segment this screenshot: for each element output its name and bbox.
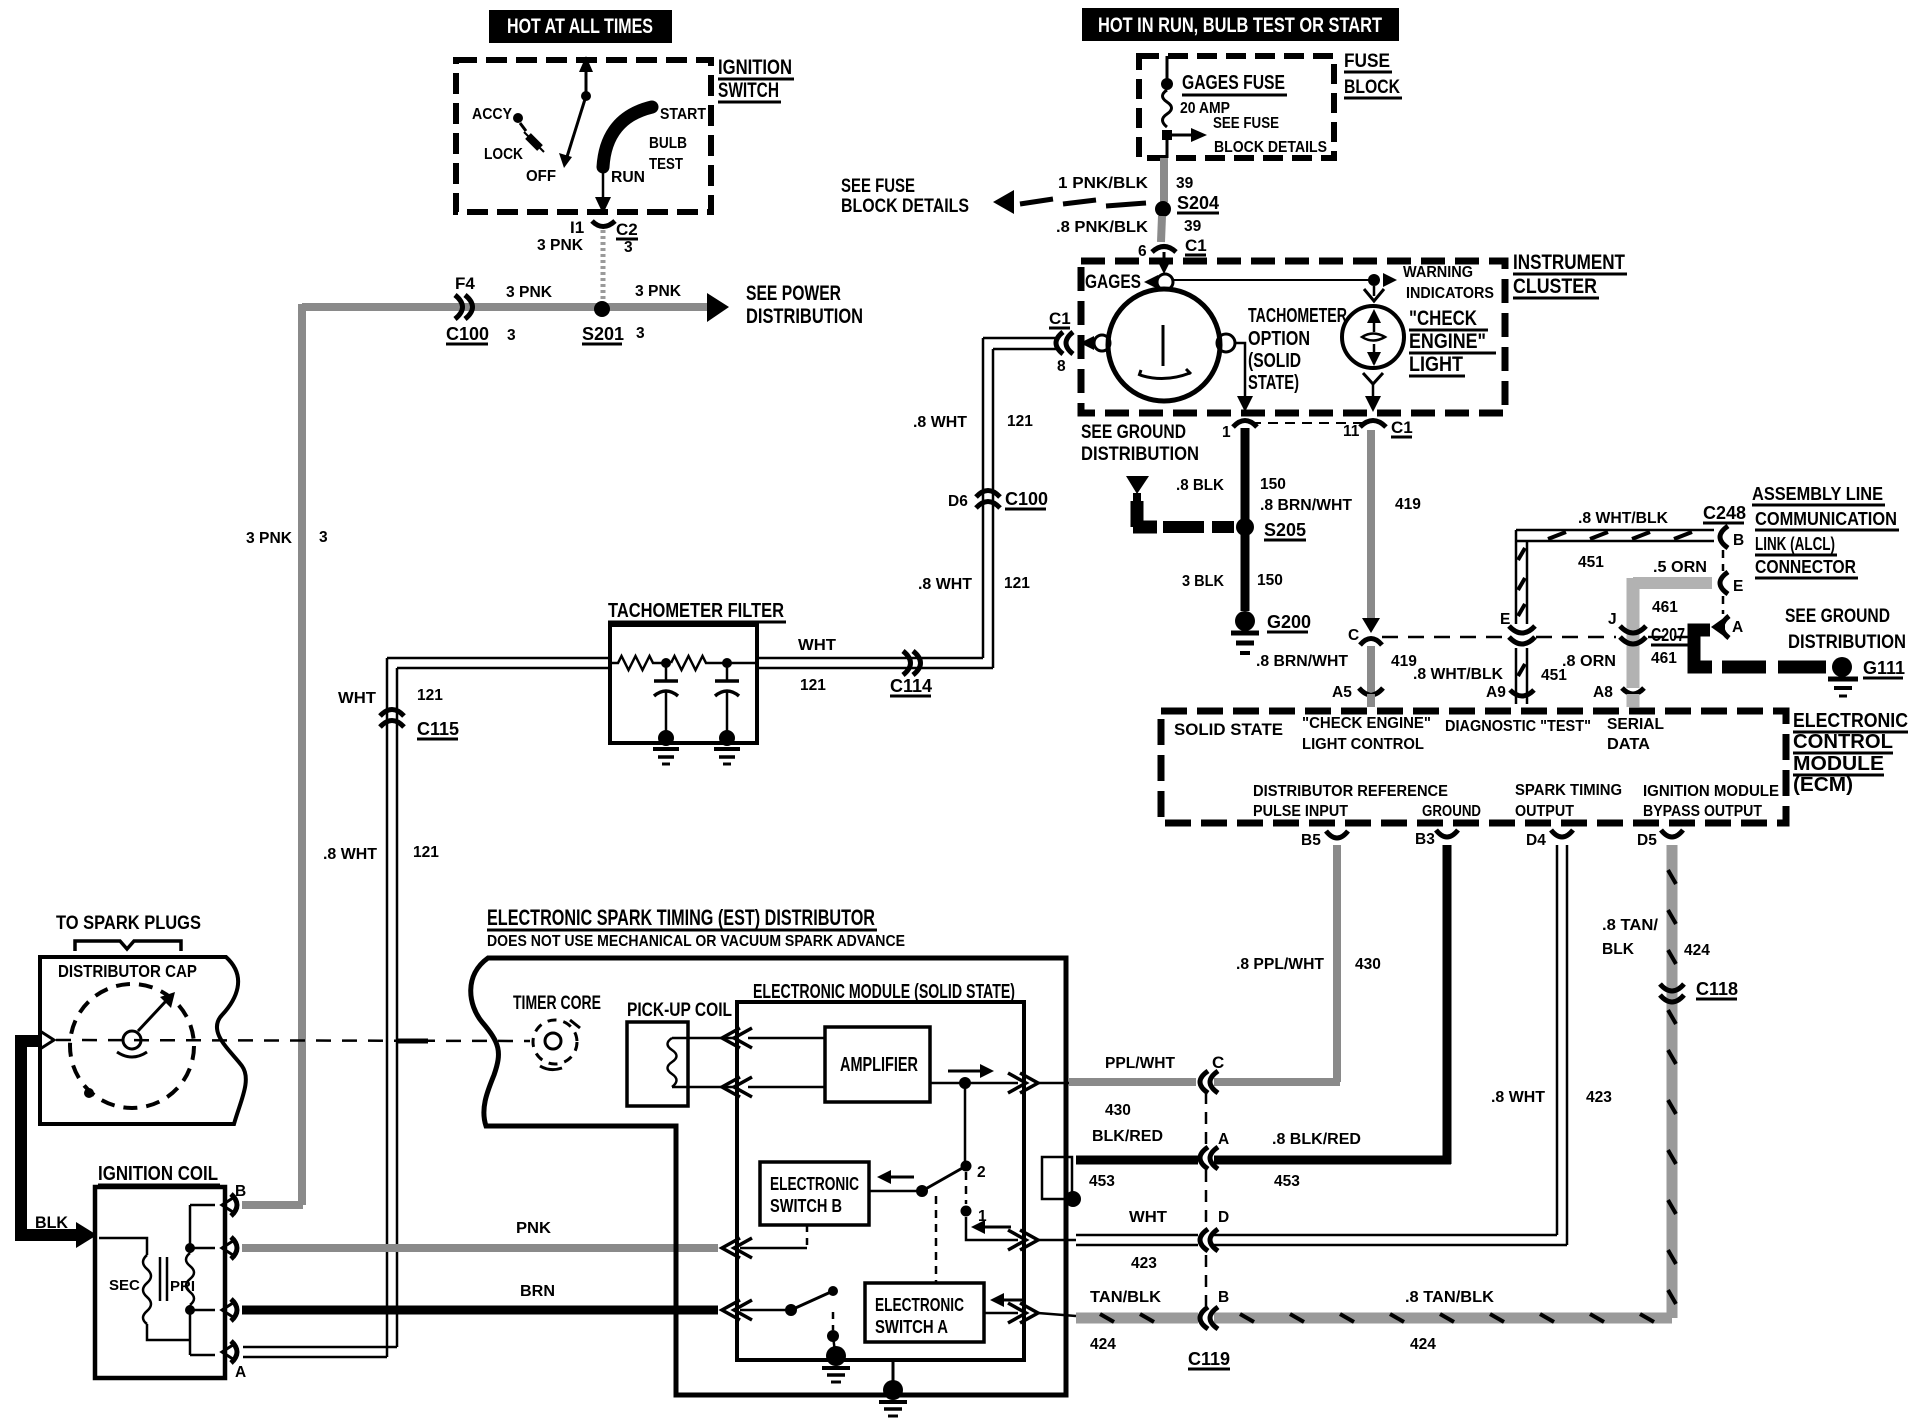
svg-text:AMPLIFIER: AMPLIFIER bbox=[840, 1054, 918, 1076]
svg-text:453: 453 bbox=[1089, 1173, 1115, 1190]
svg-text:SWITCH: SWITCH bbox=[718, 79, 779, 102]
svg-text:C: C bbox=[1212, 1053, 1224, 1072]
svg-text:C: C bbox=[1348, 627, 1359, 644]
svg-text:RUN: RUN bbox=[611, 169, 645, 186]
svg-text:OFF: OFF bbox=[526, 168, 556, 185]
svg-text:SERIAL: SERIAL bbox=[1607, 716, 1664, 733]
svg-text:COMMUNICATION: COMMUNICATION bbox=[1755, 509, 1897, 529]
svg-text:C1: C1 bbox=[1391, 418, 1413, 437]
svg-text:BLK: BLK bbox=[1602, 941, 1635, 958]
svg-text:B3: B3 bbox=[1415, 831, 1435, 848]
svg-text:DIAGNOSTIC "TEST": DIAGNOSTIC "TEST" bbox=[1445, 718, 1591, 735]
svg-text:C207: C207 bbox=[1651, 625, 1685, 645]
svg-text:A: A bbox=[235, 1364, 246, 1381]
svg-text:DISTRIBUTOR CAP: DISTRIBUTOR CAP bbox=[58, 961, 197, 981]
svg-text:.8 WHT: .8 WHT bbox=[323, 846, 378, 863]
svg-text:WHT: WHT bbox=[1129, 1209, 1168, 1226]
svg-text:430: 430 bbox=[1105, 1102, 1131, 1119]
svg-text:424: 424 bbox=[1090, 1336, 1116, 1353]
svg-text:PULSE INPUT: PULSE INPUT bbox=[1253, 803, 1348, 820]
svg-text:6: 6 bbox=[1138, 243, 1147, 260]
svg-text:C118: C118 bbox=[1696, 979, 1738, 999]
svg-text:DISTRIBUTOR REFERENCE: DISTRIBUTOR REFERENCE bbox=[1253, 783, 1448, 800]
svg-text:BYPASS OUTPUT: BYPASS OUTPUT bbox=[1643, 803, 1762, 820]
svg-text:SPARK TIMING: SPARK TIMING bbox=[1515, 782, 1622, 799]
svg-text:B: B bbox=[1733, 532, 1744, 549]
svg-text:3: 3 bbox=[636, 325, 645, 342]
svg-text:ELECTRONIC: ELECTRONIC bbox=[770, 1174, 859, 1194]
svg-text:D6: D6 bbox=[948, 493, 968, 510]
svg-text:B: B bbox=[235, 1183, 246, 1200]
svg-text:WHT: WHT bbox=[338, 690, 377, 707]
svg-text:SEE GROUND: SEE GROUND bbox=[1081, 422, 1186, 443]
svg-text:CONNECTOR: CONNECTOR bbox=[1755, 557, 1856, 577]
svg-text:ELECTRONIC MODULE (SOLID STATE: ELECTRONIC MODULE (SOLID STATE) bbox=[753, 981, 1015, 1003]
svg-text:430: 430 bbox=[1355, 956, 1381, 973]
svg-text:D5: D5 bbox=[1637, 832, 1657, 849]
svg-text:FUSE: FUSE bbox=[1344, 51, 1390, 72]
svg-text:D4: D4 bbox=[1526, 832, 1546, 849]
svg-text:.8 WHT/BLK: .8 WHT/BLK bbox=[1578, 510, 1669, 527]
svg-text:PPL/WHT: PPL/WHT bbox=[1105, 1055, 1176, 1072]
svg-text:GROUND: GROUND bbox=[1422, 803, 1481, 820]
svg-text:3: 3 bbox=[319, 529, 328, 546]
svg-text:ENGINE": ENGINE" bbox=[1409, 330, 1486, 353]
svg-text:OPTION: OPTION bbox=[1248, 328, 1310, 350]
svg-text:DISTRIBUTION: DISTRIBUTION bbox=[1081, 444, 1199, 465]
svg-text:.8 WHT: .8 WHT bbox=[918, 576, 973, 593]
svg-text:"CHECK: "CHECK bbox=[1409, 307, 1477, 330]
svg-text:B5: B5 bbox=[1301, 832, 1321, 849]
svg-text:WHT: WHT bbox=[798, 637, 837, 654]
svg-text:ELECTRONIC SPARK TIMING (EST): ELECTRONIC SPARK TIMING (EST) DISTRIBUTO… bbox=[487, 905, 875, 930]
svg-text:DATA: DATA bbox=[1607, 736, 1650, 753]
svg-text:B: B bbox=[1218, 1289, 1229, 1306]
svg-text:121: 121 bbox=[1007, 413, 1033, 430]
svg-text:S205: S205 bbox=[1264, 520, 1306, 540]
svg-text:SEE FUSE: SEE FUSE bbox=[1213, 115, 1279, 132]
svg-text:1: 1 bbox=[1222, 424, 1231, 441]
svg-text:A9: A9 bbox=[1486, 684, 1506, 701]
svg-text:ASSEMBLY LINE: ASSEMBLY LINE bbox=[1752, 484, 1883, 504]
svg-text:451: 451 bbox=[1578, 554, 1604, 571]
svg-text:.8 ORN: .8 ORN bbox=[1562, 653, 1616, 670]
svg-text:C119: C119 bbox=[1188, 1349, 1230, 1369]
svg-text:A8: A8 bbox=[1593, 684, 1613, 701]
svg-text:E: E bbox=[1733, 578, 1743, 595]
svg-text:DISTRIBUTION: DISTRIBUTION bbox=[1788, 632, 1906, 653]
svg-text:ELECTRONIC: ELECTRONIC bbox=[875, 1295, 964, 1315]
svg-text:3 BLK: 3 BLK bbox=[1182, 573, 1225, 590]
svg-text:IGNITION MODULE: IGNITION MODULE bbox=[1643, 783, 1779, 800]
svg-text:TACHOMETER FILTER: TACHOMETER FILTER bbox=[608, 600, 784, 622]
svg-text:INDICATORS: INDICATORS bbox=[1406, 285, 1494, 302]
svg-text:150: 150 bbox=[1257, 572, 1283, 589]
svg-text:A5: A5 bbox=[1332, 684, 1352, 701]
svg-text:.8 BRN/WHT: .8 BRN/WHT bbox=[1256, 653, 1349, 670]
svg-text:CLUSTER: CLUSTER bbox=[1513, 275, 1597, 298]
svg-text:424: 424 bbox=[1684, 942, 1710, 959]
svg-text:TO SPARK PLUGS: TO SPARK PLUGS bbox=[56, 913, 201, 934]
svg-text:MODULE: MODULE bbox=[1793, 753, 1884, 775]
svg-text:121: 121 bbox=[417, 687, 443, 704]
svg-text:GAGES: GAGES bbox=[1085, 272, 1141, 293]
svg-text:E: E bbox=[1500, 611, 1510, 628]
svg-text:423: 423 bbox=[1131, 1255, 1157, 1272]
svg-text:423: 423 bbox=[1586, 1089, 1612, 1106]
svg-text:BLOCK DETAILS: BLOCK DETAILS bbox=[1214, 139, 1327, 156]
svg-text:LIGHT: LIGHT bbox=[1409, 353, 1463, 376]
svg-text:1 PNK/BLK: 1 PNK/BLK bbox=[1058, 175, 1149, 192]
svg-text:J: J bbox=[1608, 611, 1617, 628]
svg-text:3 PNK: 3 PNK bbox=[246, 530, 293, 547]
svg-text:IGNITION: IGNITION bbox=[718, 56, 792, 79]
svg-text:PNK: PNK bbox=[516, 1220, 552, 1237]
svg-text:.8 BRN/WHT: .8 BRN/WHT bbox=[1260, 497, 1353, 514]
svg-text:INSTRUMENT: INSTRUMENT bbox=[1513, 251, 1625, 274]
svg-text:453: 453 bbox=[1274, 1173, 1300, 1190]
svg-text:BLOCK: BLOCK bbox=[1344, 77, 1400, 98]
svg-text:LINK (ALCL): LINK (ALCL) bbox=[1755, 534, 1835, 554]
svg-text:BLK/RED: BLK/RED bbox=[1092, 1128, 1163, 1145]
svg-text:.8 BLK: .8 BLK bbox=[1176, 477, 1225, 494]
svg-text:LOCK: LOCK bbox=[484, 146, 523, 163]
svg-text:(SOLID: (SOLID bbox=[1248, 350, 1301, 372]
svg-text:424: 424 bbox=[1410, 1336, 1436, 1353]
svg-text:39: 39 bbox=[1184, 218, 1202, 235]
svg-text:121: 121 bbox=[800, 677, 826, 694]
svg-text:C248: C248 bbox=[1703, 503, 1746, 523]
svg-text:ACCY: ACCY bbox=[472, 106, 512, 123]
svg-text:WARNING: WARNING bbox=[1403, 264, 1473, 281]
svg-text:C100: C100 bbox=[446, 324, 489, 344]
svg-text:LIGHT CONTROL: LIGHT CONTROL bbox=[1302, 736, 1424, 753]
svg-text:.8 WHT: .8 WHT bbox=[913, 414, 968, 431]
svg-text:SEE GROUND: SEE GROUND bbox=[1785, 606, 1890, 627]
svg-text:G200: G200 bbox=[1267, 612, 1311, 632]
svg-text:.8 TAN/: .8 TAN/ bbox=[1602, 917, 1659, 934]
svg-text:"CHECK ENGINE": "CHECK ENGINE" bbox=[1302, 715, 1431, 732]
svg-text:TIMER CORE: TIMER CORE bbox=[513, 993, 601, 1014]
svg-text:.8 WHT/BLK: .8 WHT/BLK bbox=[1413, 666, 1504, 683]
svg-text:HOT AT ALL TIMES: HOT AT ALL TIMES bbox=[507, 15, 653, 38]
svg-text:STATE): STATE) bbox=[1248, 372, 1299, 394]
svg-text:G111: G111 bbox=[1863, 658, 1905, 678]
svg-text:BULB: BULB bbox=[649, 135, 687, 152]
svg-text:S204: S204 bbox=[1177, 193, 1219, 213]
svg-text:121: 121 bbox=[1004, 575, 1030, 592]
svg-text:OUTPUT: OUTPUT bbox=[1515, 803, 1574, 820]
svg-text:C1: C1 bbox=[1185, 236, 1207, 255]
svg-text:.8 BLK/RED: .8 BLK/RED bbox=[1272, 1131, 1361, 1148]
svg-text:(ECM): (ECM) bbox=[1793, 774, 1853, 796]
svg-text:3: 3 bbox=[507, 327, 516, 344]
svg-text:SOLID STATE: SOLID STATE bbox=[1174, 720, 1283, 739]
svg-text:BLK: BLK bbox=[35, 1213, 69, 1232]
svg-text:BLOCK DETAILS: BLOCK DETAILS bbox=[841, 196, 969, 217]
svg-text:C100: C100 bbox=[1005, 489, 1048, 509]
svg-text:8: 8 bbox=[1057, 358, 1066, 375]
svg-text:461: 461 bbox=[1651, 650, 1677, 667]
svg-text:C115: C115 bbox=[417, 719, 459, 739]
svg-text:C1: C1 bbox=[1049, 309, 1071, 328]
svg-text:HOT IN RUN, BULB TEST OR START: HOT IN RUN, BULB TEST OR START bbox=[1098, 14, 1382, 37]
svg-text:SEE FUSE: SEE FUSE bbox=[841, 176, 915, 197]
svg-text:3 PNK: 3 PNK bbox=[635, 283, 682, 300]
svg-text:11: 11 bbox=[1343, 423, 1360, 440]
svg-text:3 PNK: 3 PNK bbox=[537, 237, 584, 254]
svg-text:S201: S201 bbox=[582, 324, 624, 344]
svg-text:SEE POWER: SEE POWER bbox=[746, 282, 841, 305]
svg-text:I1: I1 bbox=[570, 218, 584, 237]
svg-text:2: 2 bbox=[977, 1164, 986, 1181]
svg-text:.8 WHT: .8 WHT bbox=[1491, 1089, 1546, 1106]
svg-text:TAN/BLK: TAN/BLK bbox=[1090, 1289, 1162, 1306]
svg-text:39: 39 bbox=[1176, 175, 1194, 192]
svg-text:.8 TAN/BLK: .8 TAN/BLK bbox=[1405, 1289, 1495, 1306]
svg-text:GAGES FUSE: GAGES FUSE bbox=[1182, 72, 1285, 94]
svg-text:419: 419 bbox=[1395, 496, 1421, 513]
svg-text:TACHOMETER: TACHOMETER bbox=[1248, 305, 1347, 327]
svg-text:START: START bbox=[660, 106, 706, 123]
svg-text:DOES NOT USE MECHANICAL OR VAC: DOES NOT USE MECHANICAL OR VACUUM SPARK … bbox=[487, 933, 905, 950]
svg-text:150: 150 bbox=[1260, 476, 1286, 493]
svg-text:F4: F4 bbox=[455, 274, 475, 293]
svg-text:451: 451 bbox=[1541, 667, 1567, 684]
svg-text:C114: C114 bbox=[890, 676, 932, 696]
svg-text:BRN: BRN bbox=[520, 1283, 555, 1300]
svg-text:ELECTRONIC: ELECTRONIC bbox=[1793, 710, 1908, 732]
svg-text:SWITCH B: SWITCH B bbox=[770, 1196, 842, 1216]
svg-text:DISTRIBUTION: DISTRIBUTION bbox=[746, 305, 863, 328]
svg-text:461: 461 bbox=[1652, 599, 1678, 616]
svg-text:3: 3 bbox=[624, 239, 633, 256]
svg-text:TEST: TEST bbox=[649, 156, 683, 173]
svg-text:C2: C2 bbox=[616, 220, 638, 239]
svg-text:CONTROL: CONTROL bbox=[1793, 731, 1893, 753]
svg-text:121: 121 bbox=[413, 844, 439, 861]
svg-text:SWITCH A: SWITCH A bbox=[875, 1317, 948, 1337]
svg-text:.8 PPL/WHT: .8 PPL/WHT bbox=[1236, 956, 1325, 973]
svg-text:A: A bbox=[1732, 619, 1743, 636]
svg-text:.5 ORN: .5 ORN bbox=[1653, 559, 1707, 576]
svg-text:IGNITION COIL: IGNITION COIL bbox=[98, 1163, 218, 1185]
svg-text:D: D bbox=[1218, 1209, 1229, 1226]
svg-text:SEC: SEC bbox=[109, 1277, 140, 1294]
svg-text:A: A bbox=[1218, 1131, 1229, 1148]
svg-text:3 PNK: 3 PNK bbox=[506, 284, 553, 301]
svg-text:.8 PNK/BLK: .8 PNK/BLK bbox=[1056, 219, 1149, 236]
svg-text:PICK-UP COIL: PICK-UP COIL bbox=[627, 1000, 732, 1021]
